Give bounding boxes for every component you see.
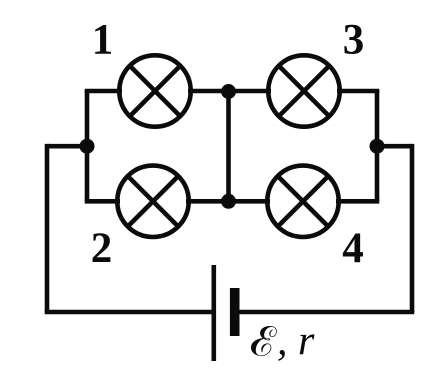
label 3 (lamp 3) [343,16,365,63]
label 4 (lamp 4) [342,225,364,272]
node right (junction of right branch and battery conductor) [370,139,385,154]
wire right node to outer right conductor [377,144,412,149]
wire lamp 2 to lamp 4 (through bottom node) [186,199,270,204]
svg-text:, r: , r [277,319,315,365]
lamp 3 [268,55,339,126]
wire left vertical branch (between lamp rows) [85,91,90,201]
lamp 1 [119,55,190,126]
svg-text:3: 3 [343,16,365,63]
wire outer left vertical conductor [45,144,50,312]
wire lamp 4 to right branch [336,199,379,204]
wire outer right vertical conductor [410,144,415,312]
label script E (emf symbol) [251,326,277,356]
wire bottom left to battery positive plate [45,310,213,315]
wire lamp 1 to lamp 3 (through top node) [188,89,271,94]
wire from left branch to lamp 2 [85,199,120,204]
svg-text:4: 4 [342,225,364,272]
lamp 4 [267,166,338,237]
wire lamp 3 to right branch [337,89,379,94]
wire middle vertical (top node to bottom node) [226,91,231,201]
svg-text:1: 1 [92,16,114,63]
node bottom (junction of lamps 2,4 and middle wire) [221,194,236,209]
svg-text:2: 2 [91,225,113,272]
label 2 (lamp 2) [91,225,113,272]
node top (junction of lamps 1,3 and middle wire) [221,84,236,99]
wire right vertical branch (between lamp rows) [375,91,380,201]
lamp 2 [117,166,188,237]
label 1 (lamp 1) [92,16,114,63]
label comma and r (internal resistance) [277,319,315,365]
wire from left branch to lamp 1 [85,89,122,94]
battery long plate (positive) [212,265,217,361]
node left (junction of left branch and battery conductor) [80,139,95,154]
wire bottom right to battery negative plate [239,310,414,315]
wire left node to outer left conductor [47,144,87,149]
battery short thick plate (negative) [230,288,240,336]
